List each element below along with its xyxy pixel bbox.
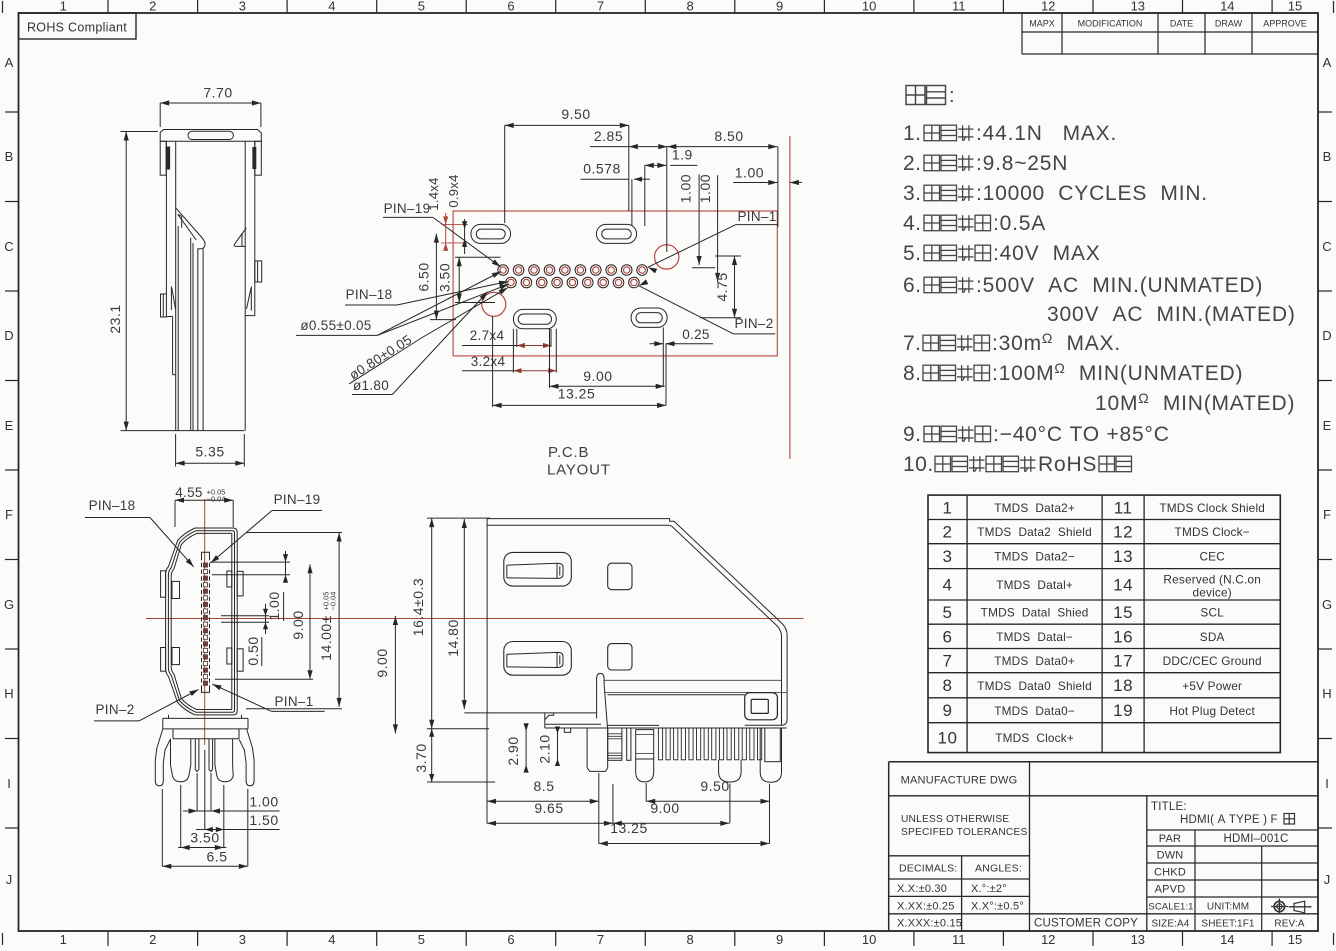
projection symbols bbox=[1274, 901, 1284, 911]
latch lower bbox=[504, 642, 572, 676]
svg-text:0.50: 0.50 bbox=[245, 636, 261, 665]
svg-text:E: E bbox=[1323, 418, 1332, 433]
foot notch bbox=[564, 728, 570, 732]
dim 9.65 bbox=[487, 822, 613, 824]
svg-text:D: D bbox=[1322, 328, 1331, 343]
svg-text:9.: 9. bbox=[903, 423, 922, 446]
svg-text:16: 16 bbox=[1113, 627, 1133, 646]
svg-text:PIN–2: PIN–2 bbox=[734, 316, 773, 331]
svg-text:9.50: 9.50 bbox=[700, 778, 729, 794]
svg-text:G: G bbox=[4, 597, 14, 612]
svg-text:DRAW: DRAW bbox=[1215, 19, 1243, 29]
svg-text:2.7x4: 2.7x4 bbox=[470, 328, 505, 343]
svg-text:7: 7 bbox=[943, 652, 953, 671]
svg-text:H: H bbox=[4, 686, 13, 701]
dim 8.5 bbox=[487, 800, 599, 802]
svg-text:16.4±0.3: 16.4±0.3 bbox=[410, 578, 426, 636]
svg-text:8: 8 bbox=[686, 0, 693, 14]
svg-text:HDMI–001C: HDMI–001C bbox=[1223, 833, 1288, 845]
svg-text:UNLESS OTHERWISE: UNLESS OTHERWISE bbox=[901, 814, 1009, 825]
right mid tab bbox=[255, 261, 262, 282]
svg-text:9.65: 9.65 bbox=[534, 800, 563, 816]
svg-text:TMDS Datal−: TMDS Datal− bbox=[996, 630, 1073, 644]
comb tooth pair bbox=[627, 728, 631, 760]
svg-text:15: 15 bbox=[1113, 603, 1133, 622]
boot pin bbox=[587, 728, 608, 771]
ROHS Compliant label bbox=[19, 13, 137, 39]
top slot right bbox=[596, 224, 636, 243]
svg-text:2: 2 bbox=[149, 0, 156, 14]
svg-text:TMDS Datal+: TMDS Datal+ bbox=[996, 578, 1073, 592]
dim 14.80 bbox=[463, 519, 465, 709]
svg-text:TMDS Datal Shied: TMDS Datal Shied bbox=[981, 606, 1089, 620]
svg-text:ROHS Compliant: ROHS Compliant bbox=[27, 21, 127, 35]
svg-text:HDMI( A TYPE ) F: HDMI( A TYPE ) F bbox=[1180, 814, 1278, 826]
svg-text:PIN–2: PIN–2 bbox=[95, 702, 134, 717]
svg-text:3: 3 bbox=[239, 0, 246, 14]
dim 3.50 bottom bbox=[178, 847, 226, 849]
svg-text:F: F bbox=[1323, 507, 1331, 522]
right outside tab lower bbox=[237, 649, 243, 671]
svg-text:MODIFICATION: MODIFICATION bbox=[1078, 19, 1143, 29]
svg-text:J: J bbox=[1324, 872, 1331, 887]
button detail bbox=[745, 693, 778, 720]
svg-text:APPROVE: APPROVE bbox=[1263, 19, 1307, 29]
svg-text:RoHS: RoHS bbox=[1038, 453, 1097, 476]
right outside tab upper bbox=[237, 571, 243, 596]
svg-text:PIN–18: PIN–18 bbox=[89, 498, 136, 513]
svg-text:X.X:±0.30: X.X:±0.30 bbox=[897, 883, 947, 895]
left ear tab bbox=[160, 141, 166, 175]
body bottom bbox=[121, 430, 245, 432]
dim 0.50 bbox=[221, 615, 269, 617]
svg-text:4: 4 bbox=[328, 932, 335, 946]
svg-text:SCALE1:1: SCALE1:1 bbox=[1148, 902, 1193, 913]
ext lines bottom bbox=[486, 713, 488, 823]
spec heading bbox=[906, 86, 925, 105]
top slot left bbox=[471, 224, 511, 243]
left ear contact (dark) bbox=[166, 147, 169, 169]
left inner bump upper bbox=[172, 581, 180, 598]
revision table bbox=[1021, 13, 1023, 54]
svg-text:DDC/CEC Ground: DDC/CEC Ground bbox=[1163, 654, 1262, 668]
svg-text:1.: 1. bbox=[903, 122, 922, 145]
svg-text:5: 5 bbox=[943, 603, 953, 622]
svg-text:1.00: 1.00 bbox=[735, 165, 764, 181]
pad row bottom (9 holes) bbox=[506, 277, 517, 288]
svg-text:−0.04: −0.04 bbox=[329, 592, 338, 611]
svg-text:UNIT:MM: UNIT:MM bbox=[1207, 902, 1249, 913]
svg-text:5: 5 bbox=[418, 932, 425, 946]
svg-text:11: 11 bbox=[1114, 498, 1133, 517]
svg-text:13: 13 bbox=[1131, 0, 1145, 14]
svg-text:4: 4 bbox=[328, 0, 335, 14]
svg-text:X.X°:±0.5°: X.X°:±0.5° bbox=[971, 901, 1024, 913]
svg-text:15: 15 bbox=[1288, 932, 1302, 946]
svg-text:2: 2 bbox=[943, 523, 953, 542]
svg-text:23.1: 23.1 bbox=[107, 304, 123, 333]
svg-text:PAR: PAR bbox=[1159, 833, 1181, 845]
svg-text:3.: 3. bbox=[903, 182, 922, 205]
svg-text::10000 CYCLES MIN.: :10000 CYCLES MIN. bbox=[976, 182, 1208, 205]
left mount tab bbox=[161, 294, 167, 317]
left outside tab lower bbox=[161, 648, 166, 672]
svg-text:14: 14 bbox=[1220, 932, 1234, 946]
svg-text:X.XX:±0.25: X.XX:±0.25 bbox=[897, 901, 955, 913]
svg-text:13: 13 bbox=[1131, 932, 1145, 946]
svg-text:11: 11 bbox=[952, 0, 966, 14]
svg-text:2.90: 2.90 bbox=[505, 736, 521, 765]
svg-text:9.00: 9.00 bbox=[650, 800, 679, 816]
svg-text:A: A bbox=[1323, 55, 1332, 70]
svg-text:PIN–19: PIN–19 bbox=[384, 201, 431, 216]
svg-text::: : bbox=[949, 85, 955, 107]
red fold line bbox=[789, 136, 791, 459]
svg-text:7: 7 bbox=[597, 932, 604, 946]
svg-text:H: H bbox=[1322, 686, 1331, 701]
svg-text:APVD: APVD bbox=[1155, 884, 1186, 896]
svg-text:REV:A: REV:A bbox=[1274, 919, 1304, 930]
svg-text:4.55: 4.55 bbox=[175, 485, 202, 500]
PCB outline (red) bbox=[453, 211, 777, 356]
svg-text:15: 15 bbox=[1288, 0, 1302, 14]
leg2 bbox=[636, 759, 654, 782]
svg-text:6: 6 bbox=[943, 627, 953, 646]
right ear contact (dark) bbox=[253, 148, 256, 169]
svg-text:11: 11 bbox=[952, 932, 966, 946]
svg-text:SCL: SCL bbox=[1200, 606, 1224, 620]
tongue contacts (19) bbox=[203, 563, 207, 567]
svg-text:ø1.80: ø1.80 bbox=[353, 378, 389, 393]
svg-text:PIN–1: PIN–1 bbox=[274, 694, 313, 709]
svg-text:14.00±: 14.00± bbox=[318, 615, 334, 661]
body bottom left bbox=[487, 712, 597, 714]
svg-text:8: 8 bbox=[943, 676, 953, 695]
svg-text:I: I bbox=[7, 776, 11, 791]
svg-text:6: 6 bbox=[507, 932, 514, 946]
svg-text:SPECIFED TOLERANCES: SPECIFED TOLERANCES bbox=[901, 827, 1027, 838]
svg-text:3.70: 3.70 bbox=[413, 743, 429, 772]
svg-text:ø0.55±0.05: ø0.55±0.05 bbox=[300, 318, 371, 333]
svg-text:10: 10 bbox=[938, 729, 958, 748]
bottom slot right bbox=[631, 308, 667, 327]
svg-text:13.25: 13.25 bbox=[558, 386, 596, 402]
svg-text:9: 9 bbox=[776, 0, 783, 14]
flange lines bbox=[605, 679, 782, 681]
svg-text:8.: 8. bbox=[903, 362, 922, 385]
left lower wall step bbox=[166, 316, 172, 318]
dim 9.00 bottom bbox=[613, 822, 729, 824]
spring stack bbox=[608, 728, 622, 760]
svg-text::500V AC MIN.(UNMATED): :500V AC MIN.(UNMATED) bbox=[976, 274, 1263, 297]
svg-text:C: C bbox=[1322, 239, 1331, 254]
svg-text:CHKD: CHKD bbox=[1154, 867, 1186, 879]
comb teeth bbox=[658, 728, 662, 760]
svg-text:9.00: 9.00 bbox=[583, 368, 612, 384]
svg-text:PIN–19: PIN–19 bbox=[274, 492, 321, 507]
vertical refs 1.00 1.00 bbox=[698, 174, 700, 265]
svg-text:7.70: 7.70 bbox=[203, 85, 232, 101]
left outside tab upper bbox=[161, 571, 166, 597]
svg-text:device): device) bbox=[1192, 585, 1231, 599]
dim 14.00 bbox=[338, 533, 340, 707]
svg-text:P.C.B: P.C.B bbox=[548, 444, 589, 461]
svg-text:12: 12 bbox=[1113, 523, 1133, 542]
shell cap bbox=[160, 130, 261, 142]
red circle hole left bbox=[482, 292, 506, 316]
right inner bump lower bbox=[227, 648, 232, 664]
svg-text:2: 2 bbox=[149, 932, 156, 946]
right angled leg bbox=[239, 729, 254, 786]
svg-text:8.50: 8.50 bbox=[714, 128, 743, 144]
svg-text:6.5: 6.5 bbox=[207, 849, 228, 865]
front shell mid bbox=[168, 531, 234, 713]
square hole lower bbox=[608, 644, 632, 670]
svg-text:TMDS Clock Shield: TMDS Clock Shield bbox=[1159, 501, 1265, 515]
dim 9.00 front bbox=[309, 564, 311, 679]
dim 16.4 bbox=[427, 517, 490, 519]
svg-text:2.10: 2.10 bbox=[537, 734, 553, 763]
svg-text:TITLE:: TITLE: bbox=[1151, 801, 1187, 813]
svg-text:10: 10 bbox=[862, 932, 876, 946]
dim 2.90 bbox=[525, 726, 527, 770]
svg-text:7.: 7. bbox=[903, 332, 922, 355]
svg-text:6: 6 bbox=[507, 0, 514, 14]
inner top line bbox=[487, 524, 669, 526]
left inner bump lower bbox=[172, 648, 180, 665]
svg-text:9.00: 9.00 bbox=[290, 610, 306, 639]
svg-text:DWN: DWN bbox=[1157, 850, 1184, 862]
dim 5.35 bbox=[175, 434, 177, 467]
svg-text:PIN–18: PIN–18 bbox=[346, 287, 393, 302]
svg-text:G: G bbox=[1322, 597, 1332, 612]
ground finger bbox=[597, 673, 608, 727]
svg-text::100MΩ MIN(UNMATED): :100MΩ MIN(UNMATED) bbox=[992, 360, 1243, 385]
svg-text:TMDS Data2 Shield: TMDS Data2 Shield bbox=[977, 525, 1092, 539]
svg-text:LAYOUT: LAYOUT bbox=[547, 462, 611, 479]
svg-text:5.35: 5.35 bbox=[195, 444, 224, 460]
svg-text:2.: 2. bbox=[903, 152, 922, 175]
svg-text:TMDS Data2−: TMDS Data2− bbox=[994, 550, 1075, 564]
svg-text:TMDS Data0 Shield: TMDS Data0 Shield bbox=[977, 679, 1092, 693]
svg-text:1.9: 1.9 bbox=[672, 147, 693, 163]
svg-text:4.: 4. bbox=[903, 212, 922, 235]
right wall bbox=[244, 141, 246, 430]
svg-text:SDA: SDA bbox=[1200, 630, 1225, 644]
svg-text:8: 8 bbox=[686, 932, 693, 946]
dim 13.25 side bbox=[599, 843, 770, 845]
cap slot bbox=[188, 131, 233, 139]
svg-text:300V AC MIN.(MATED): 300V AC MIN.(MATED) bbox=[1047, 303, 1296, 326]
center chamfer band bbox=[176, 208, 205, 249]
svg-text:D: D bbox=[4, 328, 13, 343]
pad row top (10 holes) bbox=[498, 265, 509, 276]
thin pin right bbox=[209, 739, 213, 772]
left solder leg bbox=[171, 739, 191, 782]
svg-text::0.5A: :0.5A bbox=[993, 212, 1046, 235]
latch upper bbox=[504, 552, 572, 586]
svg-text:5: 5 bbox=[418, 0, 425, 14]
svg-text:9: 9 bbox=[776, 932, 783, 946]
front shell outer bbox=[166, 528, 238, 715]
svg-text:DECIMALS:: DECIMALS: bbox=[899, 863, 957, 875]
svg-text::44.1N MAX.: :44.1N MAX. bbox=[976, 122, 1117, 145]
left inner tab bbox=[170, 286, 172, 310]
svg-text:3.50: 3.50 bbox=[436, 263, 452, 292]
svg-text:1.4x4: 1.4x4 bbox=[426, 177, 441, 210]
svg-text:2.85: 2.85 bbox=[594, 128, 623, 144]
dim 2.10 bbox=[557, 728, 559, 764]
svg-text:9.50: 9.50 bbox=[561, 106, 590, 122]
svg-text:0.25: 0.25 bbox=[682, 327, 709, 342]
svg-text:4: 4 bbox=[943, 575, 953, 594]
svg-text:+5V Power: +5V Power bbox=[1182, 679, 1242, 693]
dim 9.50 side bbox=[646, 800, 769, 802]
svg-text:TMDS Data0−: TMDS Data0− bbox=[994, 704, 1075, 718]
right chamfer detail bbox=[234, 228, 246, 247]
svg-text:1.00: 1.00 bbox=[266, 591, 282, 620]
svg-text:A: A bbox=[5, 55, 14, 70]
svg-text:TMDS Data2+: TMDS Data2+ bbox=[994, 501, 1075, 515]
leg4 right pin bbox=[765, 728, 781, 762]
right inner bump upper bbox=[227, 571, 232, 587]
left angled leg bbox=[155, 729, 170, 786]
svg-text:1: 1 bbox=[943, 498, 953, 517]
right ear tab bbox=[255, 141, 261, 175]
title block bbox=[889, 761, 1318, 763]
svg-text:1.00: 1.00 bbox=[697, 174, 713, 203]
svg-text:9.00: 9.00 bbox=[374, 648, 390, 677]
red circle hole right bbox=[655, 245, 679, 269]
svg-text:1: 1 bbox=[60, 932, 67, 946]
svg-text:10: 10 bbox=[862, 0, 876, 14]
svg-text:1.50: 1.50 bbox=[249, 812, 278, 828]
center contact lines bbox=[177, 226, 179, 431]
red centerline vertical bbox=[204, 499, 206, 745]
svg-text:F: F bbox=[5, 507, 13, 522]
svg-text:−0.04: −0.04 bbox=[207, 495, 226, 504]
pin assignment table bbox=[928, 495, 1280, 752]
svg-text:E: E bbox=[5, 418, 14, 433]
svg-text:J: J bbox=[6, 872, 13, 887]
square hole upper bbox=[608, 563, 632, 590]
svg-text:1.00: 1.00 bbox=[678, 174, 694, 203]
svg-text:CUSTOMER COPY: CUSTOMER COPY bbox=[1034, 918, 1138, 930]
right lower tab bbox=[250, 286, 252, 310]
svg-text:DATE: DATE bbox=[1170, 19, 1193, 29]
tongue bbox=[202, 556, 210, 689]
svg-text:B: B bbox=[1323, 149, 1332, 164]
svg-text:X.XXX:±0.15: X.XXX:±0.15 bbox=[897, 918, 962, 930]
dim 9.00 left bbox=[394, 616, 396, 733]
svg-text:3.2x4: 3.2x4 bbox=[471, 354, 506, 369]
svg-text:17: 17 bbox=[1113, 652, 1133, 671]
svg-text:18: 18 bbox=[1113, 676, 1133, 695]
svg-text:12: 12 bbox=[1041, 932, 1055, 946]
side view main outline bbox=[487, 519, 787, 726]
inner chamfer bbox=[670, 525, 782, 725]
svg-text:1: 1 bbox=[60, 0, 67, 14]
svg-text:13: 13 bbox=[1113, 547, 1133, 566]
bracket below shell bbox=[163, 717, 248, 719]
svg-text:14: 14 bbox=[1220, 0, 1234, 14]
svg-text:19: 19 bbox=[1113, 701, 1133, 720]
svg-text:4.75: 4.75 bbox=[714, 272, 730, 301]
leg2 upper block bbox=[636, 730, 654, 759]
svg-text:TMDS Clock−: TMDS Clock− bbox=[1175, 525, 1250, 539]
svg-text:CEC: CEC bbox=[1199, 550, 1225, 564]
svg-text:B: B bbox=[5, 149, 14, 164]
svg-text:9: 9 bbox=[943, 701, 953, 720]
dim 1.50 bottom bbox=[196, 829, 280, 831]
dim 1.00 bottom bbox=[183, 810, 280, 812]
svg-text:1.00: 1.00 bbox=[249, 794, 278, 810]
svg-text::9.8~25N: :9.8~25N bbox=[976, 152, 1068, 175]
front shell inner bbox=[171, 533, 232, 709]
svg-text:TMDS Data0+: TMDS Data0+ bbox=[994, 654, 1075, 668]
svg-text:MAPX: MAPX bbox=[1029, 19, 1055, 29]
svg-text::40V MAX: :40V MAX bbox=[993, 242, 1101, 265]
svg-text:3: 3 bbox=[943, 547, 953, 566]
svg-text::30mΩ MAX.: :30mΩ MAX. bbox=[992, 330, 1121, 355]
svg-text:13.25: 13.25 bbox=[610, 820, 648, 836]
svg-text:3: 3 bbox=[239, 932, 246, 946]
step block left bbox=[545, 713, 554, 720]
svg-text:7: 7 bbox=[597, 0, 604, 14]
svg-text:SIZE:A4: SIZE:A4 bbox=[1152, 919, 1190, 930]
dim 6.5 bottom bbox=[162, 865, 248, 867]
svg-text:3.50: 3.50 bbox=[190, 830, 219, 846]
svg-text:6.50: 6.50 bbox=[416, 262, 432, 291]
bottom slot left bbox=[513, 309, 556, 328]
thin pin left bbox=[195, 739, 199, 772]
svg-text:14.80: 14.80 bbox=[445, 619, 461, 657]
red centerline horizontal bbox=[146, 618, 804, 620]
svg-text::−40°C TO +85°C: :−40°C TO +85°C bbox=[993, 423, 1170, 446]
svg-text:SHEET:1F1: SHEET:1F1 bbox=[1201, 919, 1254, 930]
svg-text:TMDS Clock+: TMDS Clock+ bbox=[995, 731, 1074, 745]
svg-text:0.9x4: 0.9x4 bbox=[446, 174, 461, 207]
dim 3.70 bbox=[431, 729, 433, 782]
svg-text:X.°:±2°: X.°:±2° bbox=[971, 883, 1007, 895]
right solder leg bbox=[215, 739, 233, 782]
svg-text:8.5: 8.5 bbox=[534, 778, 555, 794]
svg-text:MANUFACTURE DWG: MANUFACTURE DWG bbox=[901, 775, 1018, 787]
dim 1.00 pitch bbox=[210, 561, 290, 563]
svg-text:0.578: 0.578 bbox=[583, 161, 621, 177]
dim 4.75 bbox=[734, 256, 736, 318]
svg-text:Hot Plug Detect: Hot Plug Detect bbox=[1169, 704, 1255, 718]
svg-text:Reserved (N.C.on: Reserved (N.C.on bbox=[1163, 572, 1261, 586]
svg-text:14: 14 bbox=[1113, 575, 1133, 594]
svg-text:I: I bbox=[1325, 776, 1329, 791]
svg-text:5.: 5. bbox=[903, 242, 922, 265]
foot ledge bbox=[545, 727, 787, 729]
svg-text:6.: 6. bbox=[903, 274, 922, 297]
svg-text:PIN–1: PIN–1 bbox=[737, 209, 776, 224]
svg-text:10.: 10. bbox=[903, 453, 934, 476]
svg-text:10MΩ MIN(MATED): 10MΩ MIN(MATED) bbox=[1095, 390, 1295, 415]
leg3 bbox=[719, 760, 742, 782]
dim 23.1 bbox=[125, 132, 127, 431]
svg-text:ANGLES:: ANGLES: bbox=[975, 863, 1022, 875]
svg-text:C: C bbox=[4, 239, 13, 254]
svg-text:12: 12 bbox=[1041, 0, 1055, 14]
left wall bbox=[165, 141, 167, 294]
